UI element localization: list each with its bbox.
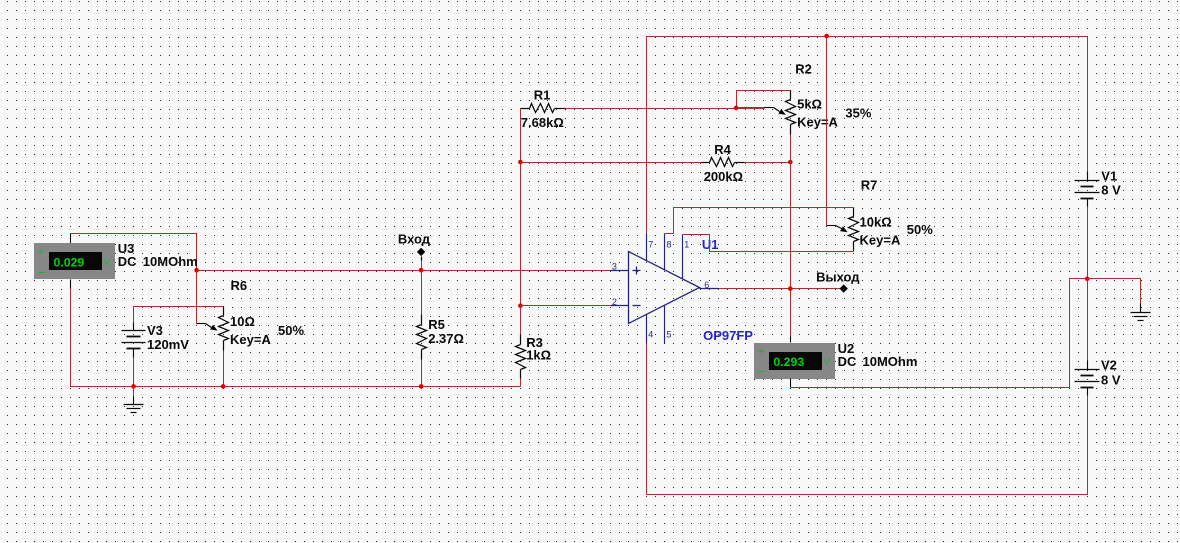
svg-text:OP97FP: OP97FP [703,328,753,343]
U1 pin 8 stub [664,234,666,271]
wire: U2 negative terminal to mid-supply node [791,279,1088,388]
wire: V3 top to R6 top [134,307,224,323]
wire: R2 wiper loop to R2 top [737,91,791,108]
svg-text:200kΩ: 200kΩ [704,169,743,184]
junction: R6 bottom on rail [221,384,226,389]
U1 pin 7 stub [646,234,648,262]
wire: mid node to right ground [1088,279,1141,304]
junction: mid-supply node [1085,277,1090,282]
junction: source node [194,268,199,273]
wire: source node to op-amp pin 3 (input net) [197,270,611,272]
wire: top V+ rail (pin 7 to V1) [647,37,1088,234]
op-amp U1 [629,252,700,324]
svg-text:Выход: Выход [816,270,860,285]
svg-text:Key=A: Key=A [860,233,901,248]
svg-text:35%: 35% [845,105,871,120]
U1 pin 4 stub [646,315,648,344]
svg-text:U1: U1 [702,237,719,252]
wire: R6 bottom to rail [223,351,225,387]
svg-text:DC: DC [118,254,137,269]
wire: pin 4 to bottom V- rail to V2 [647,344,1088,495]
potentiometer R6 [223,307,225,316]
wire: feedback node to R4 left [521,162,702,164]
multimeter U3 [70,234,72,244]
wire: pin 8 to R7 top [665,208,854,234]
ground (below V3) [133,387,135,397]
wire: R2 bottom through output column to U2 top [790,135,792,337]
svg-text:50%: 50% [278,323,304,338]
svg-text:5kΩ: 5kΩ [797,96,822,111]
svg-text:50%: 50% [907,222,933,237]
svg-text:V: V [824,357,831,367]
wire: feedback node to op-amp pin 2 [521,305,611,307]
svg-text:7.68kΩ: 7.68kΩ [521,115,564,130]
wire: op-amp output to node [719,288,844,290]
svg-text:5: 5 [666,329,671,339]
svg-text:3: 3 [612,261,617,271]
junction: R2 wiper/top tie [734,106,739,111]
wire: V3 bottom to ground rail [133,358,135,387]
svg-text:2: 2 [612,297,617,307]
junction: R4 right / R2 bottom [788,160,793,165]
svg-text:R2: R2 [795,62,812,77]
junction: output / feedback column [788,286,793,291]
U1 pin 2 stub [611,305,629,307]
wire: U3 negative terminal down-left rail [71,289,521,387]
wire: R2 wiper horizontal [737,107,765,109]
svg-text:6: 6 [704,280,709,290]
wire: R4 right to R2 bottom column [745,162,791,164]
svg-text:8 V: 8 V [1101,183,1121,198]
svg-text:1: 1 [684,239,689,249]
svg-text:R7: R7 [861,178,878,193]
svg-text:1kΩ: 1kΩ [526,347,551,362]
wire: R1 left corner down feedback column [520,109,522,306]
svg-text:7: 7 [648,239,653,249]
svg-text:V3: V3 [147,323,163,338]
junction: R5 bottom on rail [419,384,424,389]
U1 pin 3 stub [611,270,629,272]
resistor R4 [702,162,710,164]
svg-text:Вход: Вход [398,232,431,247]
potentiometer R7 [853,208,855,217]
junction: V3 bottom on rail [131,384,136,389]
svg-text:10Ω: 10Ω [230,314,255,329]
svg-text:10MOhm: 10MOhm [143,254,198,269]
battery V2 [1087,361,1089,370]
svg-text:10MOhm: 10MOhm [863,354,918,369]
wire: U3 positive terminal to source node [71,234,197,271]
svg-text:2.37Ω: 2.37Ω [428,331,464,346]
svg-text:Key=A: Key=A [797,115,838,130]
svg-text:V2: V2 [1101,357,1117,372]
svg-text:4: 4 [648,329,653,339]
svg-text:8: 8 [666,239,671,249]
wire: source node down to R6 wiper [196,271,198,324]
svg-text:V: V [104,258,111,268]
junction: feedback to R4 [518,160,523,165]
junction: feedback to pin 2 [518,303,523,308]
svg-text:DC: DC [838,354,857,369]
junction: top rail / R7 wiper [824,34,829,39]
wire: R7 bottom to pin 1 [683,235,854,252]
svg-text:120mV: 120mV [147,337,189,352]
ground (right, mid-supply) [1140,304,1142,313]
multimeter U2 [790,337,792,343]
svg-text:0.029: 0.029 [54,256,85,270]
svg-text:0.293: 0.293 [773,355,804,369]
resistor R1 [521,108,530,110]
U1 pin 5 stub [664,306,666,344]
svg-text:8 V: 8 V [1101,372,1121,387]
wire: V1 bottom to mid node [1087,207,1089,279]
svg-text:R6: R6 [231,278,248,293]
svg-text:R4: R4 [714,142,731,157]
junction: input node on wire [419,268,424,273]
battery V1 [1087,172,1089,181]
wire: mid node to V2 top [1087,279,1089,361]
svg-text:R5: R5 [428,317,445,332]
svg-text:Key=A: Key=A [230,332,271,347]
U1 pin 1 stub [682,235,684,280]
resistor R3 [520,306,522,335]
wire: top rail to R7 wiper [826,37,828,226]
U1 pin 6 stub [700,288,719,290]
resistor R5 [421,271,423,315]
svg-text:V1: V1 [1101,169,1117,184]
svg-text:10kΩ: 10kΩ [860,214,892,229]
potentiometer R2 [790,91,792,100]
wire: R1 right to R2 wiper junction [566,108,765,110]
battery V3 [133,323,135,331]
svg-text:R1: R1 [534,88,551,103]
